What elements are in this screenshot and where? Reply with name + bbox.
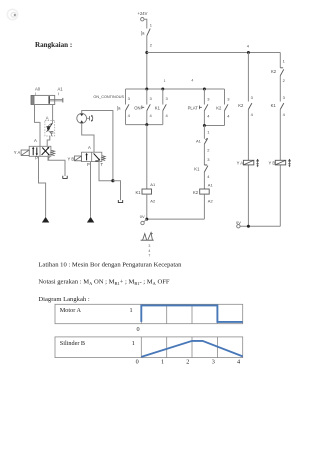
node pneumatic junction <box>111 179 114 182</box>
exhaust 2 <box>118 200 123 203</box>
svg-text:4: 4 <box>207 114 210 119</box>
svg-text:[a: [a <box>117 105 121 110</box>
svg-text:P: P <box>35 156 38 161</box>
main switch S1 (detent) <box>141 29 150 36</box>
wire switch to bus <box>146 36 148 89</box>
wire junction to exhaust 2 <box>113 181 121 201</box>
wire cylinder left port to valve A port A <box>35 105 41 147</box>
ladder rail block 2 bottom <box>204 125 224 127</box>
svg-text:ON_CONTINOUS: ON_CONTINOUS <box>93 95 124 99</box>
ladder rail block 1 bottom <box>126 124 163 126</box>
svg-text:4: 4 <box>227 114 230 119</box>
svg-text:2: 2 <box>186 359 189 366</box>
svg-text:4: 4 <box>283 112 286 117</box>
svg-text:Y B: Y B <box>68 156 75 161</box>
node <box>203 88 206 91</box>
svg-text:K1: K1 <box>136 190 142 195</box>
valve A port labels P T <box>35 156 50 161</box>
svg-text:K1: K1 <box>194 166 200 171</box>
svg-text:A: A <box>34 138 37 143</box>
svg-text:4: 4 <box>148 249 150 253</box>
svg-text:3: 3 <box>207 157 210 162</box>
svg-text:A1: A1 <box>150 182 156 187</box>
wire block2 to contact A1 <box>203 126 205 190</box>
contact K1 NC <box>194 165 208 172</box>
marker tick marks <box>148 244 150 257</box>
svg-text:K1: K1 <box>271 103 277 108</box>
svg-text:A1: A1 <box>58 87 64 92</box>
svg-text:K2: K2 <box>193 190 199 195</box>
wire coil K1 to 0V rail <box>146 194 148 219</box>
svg-text:ON: ON <box>134 105 140 110</box>
valve B 3/2 directional valve <box>82 152 102 161</box>
svg-text:P: P <box>87 162 90 167</box>
relay coil K1 <box>136 189 152 195</box>
contact ON_CONTINOUS (branch 1) <box>117 89 131 125</box>
svg-text:A1: A1 <box>196 138 202 143</box>
0V rail left ladder <box>147 218 205 220</box>
node right-rail junction <box>247 51 250 54</box>
svg-text:K2: K2 <box>216 105 222 110</box>
svg-text:3: 3 <box>166 96 169 101</box>
solenoid valve YA <box>243 159 259 168</box>
svg-text:T: T <box>101 162 104 167</box>
Motor A signal trace <box>141 305 242 322</box>
cylinder A <box>31 95 63 104</box>
Silinder B position trace <box>141 341 242 357</box>
svg-text:A1: A1 <box>208 182 214 187</box>
svg-text:Notasi gerakan : MA ON ; MB1+: Notasi gerakan : MA ON ; MB1+ ; MB1- ; M… <box>38 279 169 286</box>
0V rail right section <box>240 225 280 227</box>
0V terminal right <box>236 220 241 228</box>
svg-text:2: 2 <box>207 148 210 153</box>
svg-text:K2: K2 <box>238 103 244 108</box>
Silinder B labels <box>60 340 240 366</box>
svg-text:4: 4 <box>150 113 153 118</box>
svg-text:[a: [a <box>141 30 145 35</box>
svg-text:1: 1 <box>132 340 135 347</box>
node <box>145 123 148 126</box>
right rung 1: wire from bus <box>247 53 249 227</box>
node <box>203 124 206 127</box>
svg-text:Y B: Y B <box>269 161 276 166</box>
contact A1 limit switch NO <box>196 138 208 144</box>
wire cylinder right port to flow control <box>52 105 54 121</box>
flow control valve (one-way) <box>45 120 55 136</box>
svg-text:1: 1 <box>161 359 164 366</box>
svg-text:Latihan 10 : Mesin Bor dengan: Latihan 10 : Mesin Bor dengan Pengaturan… <box>38 262 182 269</box>
contact K2 NO (right rung 1) <box>238 103 252 109</box>
svg-text:3: 3 <box>150 96 153 101</box>
valve A 4/2 directional valve <box>29 146 51 156</box>
svg-text:A: A <box>88 145 91 150</box>
svg-text:0: 0 <box>137 326 140 333</box>
air source 1 <box>42 217 49 223</box>
wire from +24V terminal <box>144 19 147 28</box>
valve A return spring <box>51 150 55 155</box>
svg-text:3: 3 <box>207 97 210 102</box>
valve B return spring <box>102 156 105 161</box>
right rung 2: vertical from bus corner <box>279 53 281 227</box>
svg-text:+24V: +24V <box>138 11 148 16</box>
wire valve B port T to junction <box>99 162 113 181</box>
marker symbol below 0V <box>141 233 154 241</box>
stray pen mark top-left <box>7 9 17 19</box>
node <box>145 218 148 221</box>
svg-text:Silinder B: Silinder B <box>60 340 85 347</box>
node <box>247 225 250 228</box>
svg-text:1: 1 <box>130 307 133 314</box>
svg-text:0: 0 <box>136 359 139 366</box>
valve A solenoid <box>21 150 29 155</box>
step chart Motor A table <box>55 304 243 323</box>
air source 2 <box>87 217 94 223</box>
wire motor top to exhaust line <box>82 111 113 181</box>
svg-text:A2: A2 <box>150 198 156 203</box>
svg-text:A0: A0 <box>35 87 41 92</box>
wire flow control to valve A port B <box>47 136 50 146</box>
svg-text:1: 1 <box>283 58 286 63</box>
node <box>161 88 164 91</box>
svg-text:1: 1 <box>164 79 166 83</box>
svg-text:7: 7 <box>148 254 150 258</box>
contact K1 NO (right rung 2) <box>271 103 284 109</box>
svg-text:K2: K2 <box>271 69 277 74</box>
+24V supply terminal <box>138 11 148 21</box>
cylinder A position labels <box>35 87 63 96</box>
svg-text:4: 4 <box>191 79 193 83</box>
svg-text:Motor A: Motor A <box>60 307 82 314</box>
svg-text:4: 4 <box>251 112 254 117</box>
node <box>145 88 148 91</box>
svg-text:3: 3 <box>283 95 286 100</box>
svg-text:PLAT: PLAT <box>188 105 199 110</box>
svg-text:4: 4 <box>207 174 210 179</box>
svg-text:1: 1 <box>207 130 210 135</box>
wire top bus to right rails <box>147 52 280 54</box>
svg-text:K1: K1 <box>155 105 161 110</box>
exhaust 1 <box>62 176 67 179</box>
svg-text:4: 4 <box>247 44 250 49</box>
wire valve A port T to exhaust <box>48 156 65 176</box>
svg-text:Y A: Y A <box>237 161 244 166</box>
svg-text:Diagram Langkah :: Diagram Langkah : <box>38 296 89 303</box>
svg-text:0V: 0V <box>140 214 145 219</box>
svg-text:2: 2 <box>283 78 286 83</box>
svg-text:A: A <box>46 115 49 120</box>
air motor M <box>77 113 93 123</box>
0V terminal left <box>140 214 147 225</box>
svg-text:4: 4 <box>128 113 131 118</box>
valve B port labels P T <box>87 162 104 167</box>
contact K1 NO (branch 3) <box>155 89 169 125</box>
svg-text:Rangkaian :: Rangkaian : <box>35 41 72 49</box>
Motor A labels <box>60 307 140 333</box>
node bus junction <box>145 51 148 54</box>
wire motor bottom to valve B port A <box>82 123 94 152</box>
svg-text:3: 3 <box>251 95 254 100</box>
step chart Silinder B table <box>55 337 243 358</box>
contact K2 NO (branch 5) <box>216 89 230 126</box>
relay coil K2 <box>193 189 209 195</box>
svg-text:Y A: Y A <box>14 150 21 155</box>
wire valve B port P to source <box>90 162 92 217</box>
wire block1 to coil K1 <box>146 125 148 189</box>
contact PLAT pushbutton (branch 4) <box>188 89 211 126</box>
svg-text:3: 3 <box>212 359 215 366</box>
svg-text:4: 4 <box>166 113 169 118</box>
wire coil K2 to 0V rail <box>203 194 205 219</box>
svg-text:2: 2 <box>150 42 153 47</box>
contact K2 NC (right rung 2) <box>271 68 284 76</box>
svg-text:1: 1 <box>150 22 153 27</box>
valve B solenoid <box>75 156 82 161</box>
svg-text:3: 3 <box>148 244 150 248</box>
ladder rail block 1 top <box>126 88 225 90</box>
contact ON pushbutton (branch 2) <box>134 89 152 125</box>
solenoid valve YB <box>275 159 291 168</box>
wire valve A port P to source <box>39 156 46 217</box>
svg-text:A2: A2 <box>208 198 214 203</box>
svg-text:4: 4 <box>237 359 240 366</box>
svg-text:3: 3 <box>227 97 230 102</box>
svg-text:3: 3 <box>128 96 131 101</box>
